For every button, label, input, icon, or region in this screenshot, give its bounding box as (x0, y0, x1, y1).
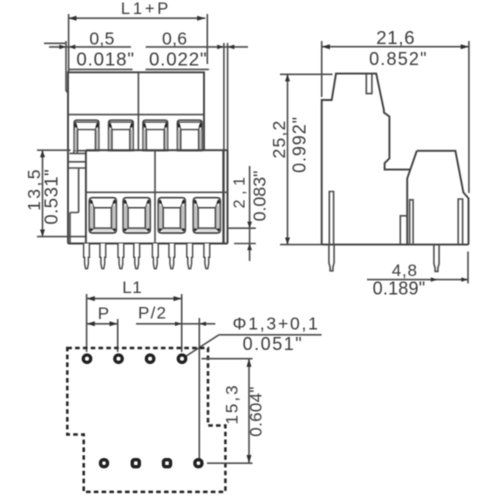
left solder pin side view (329, 245, 334, 271)
extension line wall left b (68, 14, 70, 73)
dimension 25,2 top extension (280, 73, 333, 75)
lower housing outline (68, 150, 228, 243)
solder pin 4 front view (134, 244, 140, 269)
extension P/2 to hole row 2 (198, 318, 200, 459)
right wall extension line b (227, 43, 229, 244)
dimension 0,6 right arrow (228, 45, 235, 50)
opening1 left strip below lower housing corner (70, 150, 86, 153)
lower clamp opening 4 (193, 198, 220, 233)
dimension L1 right arrow (174, 296, 182, 301)
solder pin 8 front view (204, 244, 210, 269)
hole row2 pos4 (195, 460, 202, 467)
dimension 13,5 bottom arrow (40, 230, 45, 237)
svg-text:15,3: 15,3 (223, 383, 242, 424)
solder pin 1 front view (84, 244, 90, 269)
extension line wall left a (66, 41, 68, 93)
dimension 25,2 bottom arrow (285, 238, 290, 245)
svg-text:0.852": 0.852" (369, 49, 428, 69)
dimension L1+P left arrow (68, 16, 76, 21)
svg-text:P: P (98, 304, 110, 323)
lower clamp opening 1 (89, 198, 116, 233)
dimension 2,1 line (249, 166, 251, 261)
dimension P/2 line (136, 323, 215, 325)
lower housing middle separation (154, 150, 156, 243)
leader diagonal to hole (186, 335, 219, 357)
middle contact leg (410, 200, 414, 245)
right solder pin side view (434, 245, 439, 272)
extension P right (117, 319, 119, 352)
dimension L1+P line (68, 17, 205, 19)
svg-text:0.189": 0.189" (373, 279, 426, 299)
hole row2 pos1 (101, 460, 108, 467)
right contact leg (458, 199, 462, 245)
dimension 25,2 top arrow (285, 74, 290, 81)
dimension 0,5 left arrow (59, 45, 66, 50)
dimension 13,5 top arrow (40, 150, 45, 157)
dimension 15,3 top extension (202, 358, 253, 360)
svg-text:0.018": 0.018" (76, 48, 135, 69)
left contact leg (329, 192, 333, 245)
small leader line left (44, 42, 66, 44)
hole row1 pos3 (146, 355, 153, 362)
dimension 4,8 line (367, 279, 468, 281)
extension L1 left (86, 294, 88, 352)
dimension 0,6 left arrow (217, 45, 224, 50)
dimension P right arrow (110, 321, 118, 326)
dimension 2,1 lower arrow (247, 244, 252, 251)
dimension 2,1 extension bottom (234, 243, 256, 245)
svg-text:P/2: P/2 (138, 303, 167, 322)
lower clamp opening 3 (158, 198, 185, 233)
dimension P left arrow (87, 321, 95, 326)
svg-text:Φ1,3+0,1: Φ1,3+0,1 (232, 314, 319, 334)
dimension P/2 right arrow (199, 322, 206, 326)
middle step box (400, 216, 407, 245)
extension line 4,8 right (467, 252, 469, 284)
underline of 0.022" (146, 68, 210, 70)
dimension 15,3 line (248, 359, 250, 464)
dimension 0,5 line (49, 46, 131, 48)
extension L1 right (181, 294, 183, 352)
upper housing outline (68, 72, 204, 243)
svg-text:0.022": 0.022" (149, 48, 208, 69)
solder pin 2 front view (100, 244, 106, 269)
dimension 21,6 line (322, 46, 469, 48)
dimension 25,2 line (287, 74, 289, 244)
solder pin 7 front view (187, 244, 193, 269)
extension line 21,6 left (321, 41, 323, 97)
dimension L1 line (87, 298, 182, 300)
dimension 13,5 line (42, 150, 44, 236)
hole row1 pos2 (115, 355, 122, 362)
dimension P line (87, 323, 118, 325)
step lines between tiers (69, 162, 86, 244)
hole row1 pos4 (178, 355, 185, 362)
dimension 21,6 left arrow (322, 44, 330, 49)
hole row2 pos3 (164, 460, 171, 467)
svg-text:0,6: 0,6 (162, 28, 187, 48)
dimension 0,6 line (146, 46, 248, 48)
svg-text:0.083": 0.083" (250, 171, 270, 222)
dimension 4,8 right arrow (461, 277, 468, 281)
svg-text:21,6: 21,6 (376, 27, 415, 48)
svg-text:0,5: 0,5 (89, 28, 114, 48)
svg-text:0.051": 0.051" (243, 334, 303, 354)
underline of 0.018" (69, 68, 133, 70)
svg-text:2,1: 2,1 (232, 172, 249, 208)
solder pin 3 front view (118, 244, 124, 269)
upper clamp opening 4 (177, 120, 202, 150)
upper clamp opening 2 (109, 120, 134, 150)
right wall extension line a (223, 43, 225, 243)
dimension 21,6 right arrow (461, 44, 469, 49)
svg-text:25,2: 25,2 (269, 119, 289, 158)
svg-text:0.604": 0.604" (247, 386, 266, 436)
hole row1 pos1 (83, 355, 90, 362)
dimension 15,3 top arrow (247, 359, 252, 367)
extension line right of L1+P (206, 14, 208, 64)
dimension 2,1 extension top (228, 227, 256, 229)
leader shelf line (219, 334, 322, 336)
svg-text:L1+P: L1+P (121, 0, 171, 18)
dimension 15,3 bottom arrow (247, 455, 252, 463)
upper housing middle separation (137, 72, 139, 150)
dimension 0,5 right arrow (69, 45, 76, 50)
upper clamp opening 1 (74, 120, 99, 150)
hole row2 pos2 (132, 460, 139, 467)
dimension 15,3 bottom extension (207, 462, 253, 464)
svg-text:L1: L1 (122, 278, 142, 297)
dimension P/2 left arrow (175, 322, 182, 326)
lower housing face line (86, 191, 228, 193)
svg-text:0.531": 0.531" (40, 169, 61, 225)
dimension 13,5 bottom extension (37, 236, 86, 238)
dimension 4,8 left arrow (431, 277, 438, 281)
dimension 13,5 top extension (37, 149, 71, 151)
svg-text:0.992": 0.992" (290, 116, 310, 173)
upper clamp opening 3 (143, 120, 168, 150)
dimension L1 left arrow (87, 296, 95, 301)
extension line 21,6 right (468, 41, 470, 193)
dimension 2,1 upper arrow (247, 222, 252, 229)
side body outline (322, 74, 469, 245)
solder pin 5 front view (152, 244, 158, 269)
lower clamp opening 2 (123, 198, 150, 233)
solder pin 6 front view (169, 244, 175, 269)
svg-text:4,8: 4,8 (392, 261, 418, 280)
dimension L1+P right arrow (197, 16, 205, 21)
screw slot side view (366, 75, 372, 94)
upper housing face line (68, 114, 204, 116)
footprint dashed outline (67, 348, 225, 492)
dimension 25,2 bottom extension (280, 244, 322, 246)
